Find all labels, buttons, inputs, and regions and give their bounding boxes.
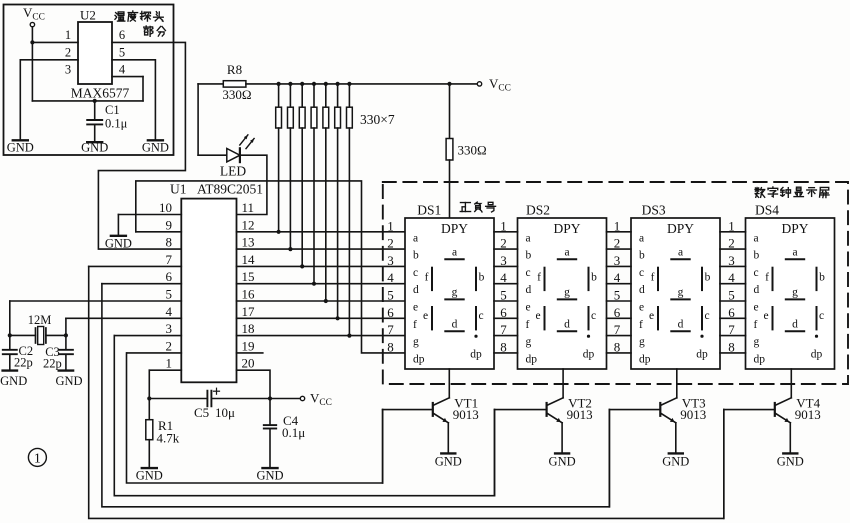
svg-text:d: d <box>526 284 532 296</box>
svg-text:dp: dp <box>413 353 425 365</box>
svg-text:GND: GND <box>256 469 283 483</box>
svg-text:GND: GND <box>435 455 462 469</box>
svg-text:2: 2 <box>614 236 621 251</box>
svg-text:d: d <box>754 284 760 296</box>
svg-text:c: c <box>639 267 644 279</box>
svg-text:b: b <box>526 250 532 262</box>
svg-text:2: 2 <box>500 236 507 251</box>
svg-text:3: 3 <box>65 63 71 77</box>
svg-text:10: 10 <box>159 200 172 215</box>
svg-text:7: 7 <box>387 322 394 337</box>
svg-text:8: 8 <box>387 339 394 354</box>
svg-text:f: f <box>537 272 541 284</box>
svg-text:b: b <box>413 250 419 262</box>
svg-text:8: 8 <box>728 339 735 354</box>
svg-text:4: 4 <box>500 270 507 285</box>
svg-text:4: 4 <box>728 270 735 285</box>
svg-text:GND: GND <box>7 141 34 155</box>
svg-text:DS1: DS1 <box>417 203 441 218</box>
svg-text:22p: 22p <box>14 356 33 370</box>
svg-text:c: c <box>591 310 596 322</box>
svg-text:13: 13 <box>242 235 255 250</box>
svg-text:LED: LED <box>220 164 246 179</box>
svg-text:c: c <box>754 267 759 279</box>
svg-text:d: d <box>792 319 798 331</box>
svg-text:a: a <box>678 247 683 259</box>
svg-text:6: 6 <box>500 305 507 320</box>
svg-text:d: d <box>452 319 458 331</box>
svg-text:1: 1 <box>387 218 394 233</box>
svg-text:DS4: DS4 <box>755 203 779 218</box>
svg-text:f: f <box>754 319 758 331</box>
svg-text:7: 7 <box>614 322 621 337</box>
svg-text:e: e <box>763 310 768 322</box>
svg-text:dp: dp <box>526 353 538 365</box>
svg-text:e: e <box>423 310 428 322</box>
svg-text:e: e <box>526 302 531 314</box>
svg-text:8: 8 <box>614 339 621 354</box>
svg-text:11: 11 <box>242 200 255 215</box>
svg-text:9: 9 <box>166 217 173 232</box>
svg-text:a: a <box>526 232 531 244</box>
svg-text:GND: GND <box>142 141 169 155</box>
svg-text:12M: 12M <box>28 313 52 327</box>
svg-text:9013: 9013 <box>567 407 593 422</box>
svg-text:20: 20 <box>242 356 255 371</box>
svg-text:9013: 9013 <box>795 407 821 422</box>
svg-text:AT89C2051: AT89C2051 <box>197 182 263 197</box>
svg-text:b: b <box>591 272 597 284</box>
svg-text:a: a <box>792 247 797 259</box>
svg-text:2: 2 <box>728 236 735 251</box>
svg-text:12: 12 <box>242 217 255 232</box>
svg-text:19: 19 <box>242 338 255 353</box>
svg-text:DPY: DPY <box>781 221 808 236</box>
svg-text:6: 6 <box>728 305 735 320</box>
svg-text:c: c <box>478 310 483 322</box>
svg-text:4: 4 <box>387 270 394 285</box>
svg-text:14: 14 <box>242 252 256 267</box>
svg-text:b: b <box>479 272 485 284</box>
svg-text:2: 2 <box>387 236 394 251</box>
svg-text:c: c <box>819 310 824 322</box>
svg-text:1: 1 <box>728 218 735 233</box>
svg-text:g: g <box>413 336 419 348</box>
svg-text:1: 1 <box>166 356 173 371</box>
svg-text:7: 7 <box>166 252 173 267</box>
svg-text:f: f <box>639 319 643 331</box>
svg-text:GND: GND <box>777 455 804 469</box>
svg-text:GND: GND <box>662 455 689 469</box>
svg-text:a: a <box>754 232 759 244</box>
svg-text:6: 6 <box>614 305 621 320</box>
svg-text:U2: U2 <box>80 8 96 23</box>
svg-text:18: 18 <box>242 321 255 336</box>
svg-text:6: 6 <box>119 28 125 42</box>
svg-text:e: e <box>413 302 418 314</box>
svg-text:d: d <box>678 319 684 331</box>
svg-text:17: 17 <box>242 304 256 319</box>
svg-text:e: e <box>639 302 644 314</box>
svg-text:g: g <box>678 287 684 299</box>
svg-text:3: 3 <box>500 253 507 268</box>
svg-text:330×7: 330×7 <box>360 112 395 127</box>
svg-text:5: 5 <box>728 288 735 303</box>
svg-text:f: f <box>413 319 417 331</box>
svg-text:5: 5 <box>166 287 173 302</box>
svg-text:9013: 9013 <box>680 407 706 422</box>
svg-text:dp: dp <box>583 349 595 361</box>
svg-text:1: 1 <box>614 218 621 233</box>
svg-text:d: d <box>564 319 570 331</box>
svg-text:R8: R8 <box>227 62 242 77</box>
svg-text:3: 3 <box>728 253 735 268</box>
svg-text:b: b <box>754 250 760 262</box>
svg-text:c: c <box>526 267 531 279</box>
svg-text:1: 1 <box>65 28 71 42</box>
svg-text:3: 3 <box>614 253 621 268</box>
svg-text:2: 2 <box>65 46 71 60</box>
svg-text:2: 2 <box>166 338 173 353</box>
svg-text:a: a <box>452 247 457 259</box>
svg-text:dp: dp <box>696 349 708 361</box>
svg-text:f: f <box>526 319 530 331</box>
svg-text:22p: 22p <box>43 357 62 371</box>
svg-text:15: 15 <box>242 269 255 284</box>
svg-text:7: 7 <box>500 322 507 337</box>
svg-text:5: 5 <box>500 288 507 303</box>
svg-text:5: 5 <box>119 46 125 60</box>
svg-text:C5: C5 <box>194 405 209 420</box>
svg-text:c: c <box>704 310 709 322</box>
svg-text:DPY: DPY <box>667 221 694 236</box>
svg-text:dp: dp <box>639 353 651 365</box>
svg-text:C1: C1 <box>105 103 120 117</box>
svg-text:5: 5 <box>614 288 621 303</box>
svg-text:4.7k: 4.7k <box>157 431 180 446</box>
svg-text:9013: 9013 <box>453 407 479 422</box>
svg-text:a: a <box>639 232 644 244</box>
svg-text:8: 8 <box>500 339 507 354</box>
svg-text:e: e <box>649 310 654 322</box>
svg-text:3: 3 <box>166 321 173 336</box>
svg-text:GND: GND <box>55 374 82 388</box>
svg-text:7: 7 <box>728 322 735 337</box>
svg-text:g: g <box>526 336 532 348</box>
svg-text:8: 8 <box>166 235 173 250</box>
svg-text:10μ: 10μ <box>215 405 235 420</box>
svg-text:0.1μ: 0.1μ <box>282 425 305 440</box>
svg-text:GND: GND <box>105 237 132 251</box>
svg-text:a: a <box>564 247 569 259</box>
svg-text:GND: GND <box>81 141 108 155</box>
svg-text:e: e <box>754 302 759 314</box>
svg-text:g: g <box>452 287 458 299</box>
svg-text:DS3: DS3 <box>642 203 666 218</box>
svg-text:U1: U1 <box>170 182 187 197</box>
svg-text:d: d <box>639 284 645 296</box>
svg-text:6: 6 <box>387 305 394 320</box>
svg-text:1: 1 <box>34 451 41 466</box>
svg-text:e: e <box>535 310 540 322</box>
svg-text:4: 4 <box>166 304 173 319</box>
svg-text:330Ω: 330Ω <box>222 87 251 102</box>
svg-text:4: 4 <box>614 270 621 285</box>
svg-text:f: f <box>425 272 429 284</box>
svg-text:b: b <box>705 272 711 284</box>
svg-text:GND: GND <box>136 469 163 483</box>
svg-text:DS2: DS2 <box>526 203 550 218</box>
svg-text:4: 4 <box>119 63 126 77</box>
svg-text:3: 3 <box>387 253 394 268</box>
svg-text:f: f <box>765 272 769 284</box>
svg-text:g: g <box>792 287 798 299</box>
svg-text:dp: dp <box>754 353 766 365</box>
svg-text:DPY: DPY <box>553 221 580 236</box>
svg-text:c: c <box>413 267 418 279</box>
svg-text:DPY: DPY <box>441 221 468 236</box>
svg-text:330Ω: 330Ω <box>458 143 487 158</box>
svg-text:g: g <box>564 287 570 299</box>
svg-text:f: f <box>651 272 655 284</box>
svg-text:5: 5 <box>387 288 394 303</box>
svg-text:0.1μ: 0.1μ <box>105 117 128 131</box>
svg-text:a: a <box>413 232 418 244</box>
svg-text:1: 1 <box>500 218 507 233</box>
svg-text:GND: GND <box>549 455 576 469</box>
svg-text:g: g <box>639 336 645 348</box>
svg-text:b: b <box>639 250 645 262</box>
svg-text:MAX6577: MAX6577 <box>71 86 130 101</box>
svg-text:6: 6 <box>166 269 173 284</box>
svg-text:dp: dp <box>470 349 482 361</box>
svg-text:dp: dp <box>811 349 823 361</box>
svg-text:GND: GND <box>0 374 27 388</box>
svg-text:d: d <box>413 284 419 296</box>
svg-text:b: b <box>819 272 825 284</box>
svg-text:g: g <box>754 336 760 348</box>
svg-text:16: 16 <box>242 287 256 302</box>
